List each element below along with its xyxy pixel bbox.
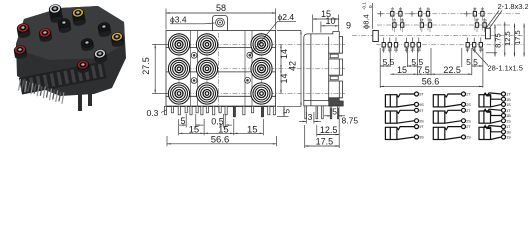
schematic jack symbol row2 col2 (433, 108, 471, 123)
front view body bottom edge emphasis (166, 105, 276, 107)
footprint pad group 1 row2 pads (393, 23, 396, 28)
front view RCA jack J1 (168, 34, 189, 55)
side view dim 12.5 (316, 125, 318, 137)
svg-text:15: 15 (247, 125, 258, 136)
svg-text:9S: 9S (419, 136, 424, 140)
side view dim 5 (330, 108, 332, 119)
footprint pad group 3 row1 pads (473, 12, 476, 16)
schematic jack symbol row1 col2 (433, 92, 471, 107)
photo jack 10 (93, 48, 108, 63)
svg-text:17.5: 17.5 (513, 30, 522, 45)
dimension 27.5 left (152, 43, 168, 45)
front view RCA jack J6 (251, 58, 272, 79)
footprint pad group 3 centerlines (474, 7, 476, 31)
svg-text:2T: 2T (466, 109, 471, 113)
photo jack 3 (57, 17, 72, 33)
schematic jack symbol row1 col1 (385, 92, 424, 107)
footprint pad group 1 centerlines (391, 7, 393, 31)
front view RCA jack J2 (196, 34, 217, 55)
dimension 56.6 bottom (166, 136, 168, 146)
front view RCA jack J4 (168, 58, 189, 79)
footprint pad group 2 crosshair (409, 13, 415, 15)
svg-text:12.5: 12.5 (320, 125, 338, 135)
svg-text:2T: 2T (466, 93, 471, 97)
photo jack 8 (13, 44, 28, 59)
svg-text:22.5: 22.5 (443, 65, 461, 75)
svg-text:56.6: 56.6 (422, 77, 440, 87)
front view RCA jack J8 (196, 83, 217, 104)
svg-text:5: 5 (180, 116, 185, 126)
footprint pad group 1 row1 pads (391, 12, 394, 16)
photo: product photograph of stacked RCA jack block (16, 6, 126, 96)
svg-text:12.5: 12.5 (503, 31, 512, 46)
schematic jack symbol row2 col3 (479, 108, 511, 123)
footprint bottom dims (379, 48, 381, 88)
schematic jack symbol row3 col1 (385, 125, 424, 140)
svg-text:1T: 1T (506, 125, 511, 129)
side view dim 10 (320, 22, 322, 33)
footprint right dims 8.75 / 12.5 / 17.5 (486, 52, 497, 54)
footprint pad group 3 row2 pads (475, 23, 478, 28)
dimension 14/14 right (280, 44, 282, 68)
photo jack 4 (97, 21, 112, 37)
schematic jack symbol row3 col2 (433, 125, 471, 140)
photo jack 5 (110, 31, 125, 47)
schematic jack symbol row2 col1 (385, 108, 424, 123)
svg-text:1B: 1B (506, 114, 511, 118)
svg-text:1S: 1S (394, 48, 399, 52)
footprint mounting slot left (1.8x3.2) (373, 31, 379, 42)
svg-text:1S: 1S (410, 48, 415, 52)
footprint horizontal row centerlines (377, 13, 520, 15)
footprint pad group 2 centerlines (419, 7, 421, 31)
side view dim 15 top (312, 15, 314, 33)
svg-text:9S: 9S (419, 103, 424, 107)
footprint pad group 3 crosshair (464, 13, 470, 15)
svg-text:1T: 1T (506, 93, 511, 97)
svg-text:28-1.1x1.5: 28-1.1x1.5 (488, 63, 523, 72)
front view horizontal seams (166, 47, 276, 49)
svg-text:15: 15 (189, 125, 200, 136)
dimension 42 right (277, 30, 301, 32)
footprint pad group 2 row1 pads (419, 12, 422, 16)
svg-text:1S: 1S (506, 119, 511, 123)
front view top mounting tab with phi3.4 hole (213, 16, 228, 31)
svg-text:14: 14 (279, 73, 289, 83)
footprint dim 56.6 (380, 85, 483, 87)
photo mounting legs lower-right (80, 92, 90, 111)
side view body outline (304, 32, 343, 106)
svg-text:-0.1: -0.1 (362, 2, 367, 10)
svg-text:27.5: 27.5 (141, 57, 151, 75)
photo jack 7 (38, 27, 53, 42)
footprint pad group 2 bottom pads (405, 43, 408, 48)
footprint pad group 1 bottom pads (382, 43, 385, 48)
side view dim 17.5 (304, 125, 306, 148)
photo jack 11 (76, 59, 90, 73)
svg-text:5: 5 (332, 106, 337, 116)
svg-text:1B: 1B (506, 130, 511, 134)
front view RCA jack J3 (251, 34, 272, 55)
svg-text:3: 3 (308, 112, 313, 122)
svg-text:1T: 1T (506, 109, 511, 113)
svg-text:2S: 2S (466, 136, 471, 140)
svg-text:1S: 1S (506, 103, 511, 107)
front view RCA jack J9 (251, 83, 272, 104)
front view small guide holes (phi 2.4) (191, 52, 197, 58)
svg-text:9T: 9T (419, 125, 424, 129)
front view centerlines (178, 33, 180, 105)
front view RCA jack J7 (168, 83, 189, 104)
dimension 5 right (front pin length) (277, 116, 289, 118)
svg-text:8.75: 8.75 (493, 33, 502, 48)
footprint pad group 3 bottom pads (466, 43, 469, 48)
footprint mounting slot right (1.8x3.2) (486, 28, 491, 39)
svg-text:1B: 1B (506, 98, 511, 102)
front view body outline (166, 31, 276, 107)
svg-text:9T: 9T (419, 109, 424, 113)
front view RCA jack J5 (196, 58, 217, 79)
svg-text:2S: 2S (466, 119, 471, 123)
svg-text:7.5: 7.5 (417, 65, 430, 75)
svg-text:42: 42 (287, 61, 297, 71)
svg-text:9T: 9T (419, 93, 424, 97)
svg-text:14: 14 (279, 49, 289, 59)
dimension 15/15/15 bottom (178, 119, 180, 135)
photo jack 2 (71, 7, 86, 26)
svg-text:5.5: 5.5 (383, 57, 395, 67)
svg-text:2T: 2T (466, 125, 471, 129)
svg-text:9S: 9S (419, 119, 424, 123)
front view terminal pins below body (164, 106, 166, 115)
side view mounting bracket (329, 98, 344, 106)
front view vertical seams (190, 31, 192, 107)
schematic jack symbol row1 col3 (479, 92, 511, 107)
svg-text:1S: 1S (506, 136, 511, 140)
svg-text:17.5: 17.5 (316, 137, 334, 147)
footprint pad group 1 crosshair (378, 13, 384, 15)
photo jack 9 (80, 37, 94, 51)
photo jack 1 (48, 3, 63, 23)
svg-text:ϕ8.4: ϕ8.4 (362, 14, 371, 29)
svg-text:9: 9 (346, 20, 351, 30)
svg-text:58: 58 (216, 3, 226, 13)
photo front-face pin comb (19, 61, 107, 94)
dimension 58 top (165, 9, 167, 30)
svg-text:ϕ3.4: ϕ3.4 (170, 14, 187, 24)
side view inner seams (310, 34, 312, 106)
svg-text:2-1.8x3.2: 2-1.8x3.2 (498, 2, 528, 11)
svg-text:5.5: 5.5 (466, 57, 478, 67)
svg-text:0.3: 0.3 (147, 108, 159, 118)
svg-text:ϕ2.4: ϕ2.4 (278, 12, 295, 22)
schematic jack symbol row3 col3 (479, 125, 511, 140)
svg-text:8.75: 8.75 (342, 115, 359, 125)
svg-text:2S: 2S (466, 103, 471, 107)
svg-text:56.6: 56.6 (211, 134, 230, 145)
photo jack 6 (16, 22, 31, 38)
side view dim 3 (305, 112, 307, 124)
photo PCB pins lower-left (19, 79, 64, 104)
svg-text:5: 5 (281, 109, 291, 114)
svg-text:15: 15 (397, 65, 407, 75)
svg-text:10: 10 (325, 16, 335, 26)
footprint main centerline (352, 34, 524, 36)
footprint pad group 2 row2 pads (420, 23, 423, 28)
side view pins below (305, 106, 307, 119)
